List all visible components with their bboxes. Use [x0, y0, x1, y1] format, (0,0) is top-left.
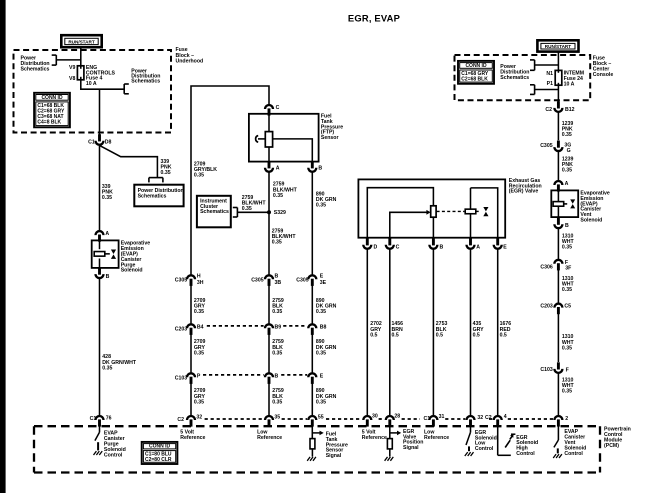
label 31 — [439, 414, 445, 420]
svg-text:0.35: 0.35 — [562, 345, 572, 351]
svg-text:30: 30 — [372, 413, 378, 419]
svg-text:55: 55 — [318, 415, 324, 421]
svg-text:(EGR) Valve: (EGR) Valve — [509, 189, 539, 195]
connector C305 3G — [554, 141, 562, 152]
label C (EGR) — [396, 244, 400, 250]
svg-text:C305: C305 — [175, 277, 188, 283]
title EGR, EVAP — [348, 12, 400, 23]
connector C2 pin 32 (EGR low) — [467, 416, 475, 427]
svg-text:35: 35 — [274, 415, 280, 421]
label 5 Volt Reference (30) — [362, 429, 387, 441]
svg-text:C2: C2 — [545, 107, 552, 113]
label H — [197, 274, 201, 280]
PCM input FTP signal arrow — [312, 426, 323, 438]
svg-text:B4: B4 — [197, 324, 204, 330]
wire junction to right bracket — [100, 88, 125, 90]
svg-text:C305: C305 — [540, 143, 553, 149]
label B (C103) — [275, 373, 279, 379]
svg-text:Reference: Reference — [362, 435, 387, 441]
svg-text:B: B — [565, 223, 569, 229]
bracket to Power Distribution Schematics (right) — [124, 84, 129, 94]
svg-text:0.35: 0.35 — [562, 287, 572, 293]
wire col3 C305-C203 — [311, 285, 313, 324]
resistor (EGR position) — [387, 439, 392, 449]
svg-text:A: A — [565, 181, 569, 187]
fuse F4 ENG CONTROLS — [77, 66, 84, 80]
svg-text:0.35: 0.35 — [272, 399, 282, 405]
connector A (FTP) — [265, 161, 273, 172]
label 2709 GRY 0.35 (band2) — [194, 339, 206, 356]
svg-text:C305: C305 — [296, 277, 309, 283]
PCM driver EGR high — [498, 426, 516, 455]
ground (purge control) — [94, 451, 103, 455]
connector pin 55 — [308, 416, 316, 427]
svg-text:Control: Control — [104, 452, 123, 458]
EGR mech dashed link — [437, 210, 465, 212]
label D — [374, 244, 378, 250]
connector B (purge) — [96, 268, 104, 279]
label 30 — [372, 413, 378, 419]
label 1310 WHT 0.35 (3) — [562, 334, 575, 351]
label S329 — [274, 210, 286, 216]
wire resistor to ground (28) — [389, 449, 391, 457]
page left border bar — [0, 0, 6, 493]
wire col1 C203-C103 — [190, 334, 192, 373]
label N1 — [546, 71, 553, 77]
wire col3 C103-PCM — [311, 383, 313, 416]
svg-text:B8: B8 — [320, 324, 327, 330]
fuel tank pressure sensor box — [249, 114, 319, 162]
svg-text:C4=8 BLK: C4=8 BLK — [37, 119, 61, 125]
label 2702 GRY 0.5 — [370, 321, 382, 338]
label 3F — [565, 266, 571, 272]
connector C203 C5 — [554, 304, 562, 315]
label 2759 BLK 0.35 (band1) — [272, 298, 284, 315]
label B9 — [275, 324, 282, 330]
label 2709 GRY/BLK 0.35 — [194, 161, 217, 178]
connector C103 pin P — [187, 373, 195, 384]
wire resistor to ground (55) — [311, 449, 313, 457]
label Power Distribution Schematics (fuse right) — [131, 68, 160, 84]
connector C1 pin 31 — [429, 416, 437, 427]
connector C203 pin B4 — [187, 324, 195, 335]
svg-text:CONN ID: CONN ID — [149, 444, 171, 450]
label C305 (right) — [540, 143, 553, 149]
wire C1 to purge solenoid — [99, 145, 101, 231]
label 890 DK GRN 0.35 (band1) — [316, 298, 337, 315]
label C103 — [175, 375, 188, 381]
label 3E — [320, 280, 327, 286]
connector E (EGR) — [494, 238, 502, 249]
PCM driver EGR low — [466, 426, 471, 451]
label 2753 BLK 0.5 — [436, 321, 448, 338]
label 890 DK GRN 0.35 (top) — [316, 192, 337, 209]
label Powertrain Control Module (PCM) — [604, 427, 631, 449]
wire RUN/START to fuse — [80, 47, 82, 66]
svg-text:Signal: Signal — [403, 445, 419, 451]
connector B (EGR) — [429, 238, 437, 249]
connector pin 35 — [265, 416, 273, 427]
PCM dashed box — [34, 426, 600, 472]
svg-text:A: A — [276, 166, 280, 172]
svg-text:Console: Console — [593, 72, 614, 78]
label A (EGR) — [476, 244, 480, 250]
wire col2 C203-C103 — [268, 334, 270, 373]
connector D (EGR) — [363, 238, 371, 249]
ground (EGR position) — [385, 457, 394, 461]
C103 harness dashed link — [203, 374, 307, 376]
svg-text:0.35: 0.35 — [562, 132, 572, 138]
svg-text:76: 76 — [106, 415, 112, 421]
svg-text:C2=68 BLK: C2=68 BLK — [461, 76, 488, 82]
connector A (EGR) — [467, 238, 475, 249]
label 2759 BLK 0.35 (band3) — [272, 388, 284, 405]
connector B (vent) — [554, 218, 562, 229]
svg-text:28: 28 — [394, 413, 400, 419]
box Instrument Cluster Schematics — [197, 196, 231, 228]
label 2759 BLK/WHT 0.35 (branch) — [242, 195, 267, 212]
label D8 — [105, 140, 112, 146]
svg-text:0.35: 0.35 — [272, 350, 282, 356]
label 28 — [394, 413, 400, 419]
label Power Distribution Schematics (left) — [21, 55, 50, 72]
connector A (purge) — [96, 231, 104, 242]
wire branch diagonal to 339 PNK — [100, 145, 158, 177]
svg-text:B: B — [275, 273, 279, 279]
label Low Reference (35) — [257, 429, 282, 441]
label E (C103) — [320, 373, 324, 379]
svg-text:2: 2 — [565, 416, 568, 422]
vent solenoid coil — [553, 190, 567, 217]
label B12 — [565, 107, 575, 113]
power symbol RUN/START (right) — [537, 40, 578, 51]
EGR inner wire D to potentiometer — [367, 188, 433, 238]
EGR potentiometer — [431, 206, 436, 217]
purge solenoid valve — [111, 250, 116, 259]
label C (FTP) — [276, 105, 280, 111]
EGR solenoid coil — [465, 188, 476, 238]
FTP pressure element — [256, 136, 266, 143]
label 1310 WHT 0.35 (2) — [562, 276, 575, 293]
svg-text:0.35: 0.35 — [194, 173, 204, 179]
svg-text:0.35: 0.35 — [272, 239, 282, 245]
label 2759 BLK/WHT 0.35 (above S329) — [273, 182, 298, 199]
svg-text:C103: C103 — [540, 367, 553, 373]
wire EGR D to PCM 30 — [366, 249, 368, 416]
purge solenoid coil — [94, 240, 110, 268]
label C103 (right) — [540, 367, 553, 373]
svg-text:E: E — [320, 373, 324, 379]
label 4 — [504, 414, 507, 420]
label C2 (B12) — [545, 107, 552, 113]
label 339 PNK 0.35 (branch) — [161, 159, 172, 176]
svg-text:Sensor: Sensor — [321, 135, 339, 141]
svg-text:S329: S329 — [274, 210, 286, 216]
wire C203 to C103 (right) — [557, 314, 559, 362]
label INTEMM Fuse 24 10 A — [564, 71, 584, 88]
svg-text:0.35: 0.35 — [562, 388, 572, 394]
label 1310 WHT 0.35 (1) — [562, 233, 575, 250]
svg-text:3E: 3E — [320, 280, 327, 286]
wire purge to PCM 76 — [99, 279, 101, 417]
wire col1 C103-PCM — [190, 383, 192, 416]
svg-text:0.5: 0.5 — [473, 332, 480, 338]
label C203 — [175, 327, 188, 333]
svg-text:F: F — [566, 368, 569, 374]
label 435 GRY 0.5 — [473, 321, 485, 338]
wire fuse to junction — [81, 80, 100, 89]
bracket PDS console bottom — [530, 85, 558, 95]
fuse block center console dashed box — [455, 55, 591, 100]
svg-text:B: B — [106, 274, 110, 280]
resistor (FTP signal) — [310, 439, 315, 449]
label C2 (32) — [177, 417, 184, 423]
splice S329 — [267, 210, 271, 214]
label EGR Solenoid High Control — [516, 435, 538, 457]
svg-text:Control: Control — [475, 446, 494, 452]
svg-text:RUN/START: RUN/START — [545, 44, 571, 49]
conn id table (underhood) — [34, 93, 70, 128]
label V8 — [69, 76, 75, 82]
label B (C305) — [275, 273, 279, 279]
svg-text:CONN ID: CONN ID — [465, 63, 487, 69]
label 3G — [564, 142, 571, 148]
label 32 — [196, 415, 202, 421]
svg-text:CONN ID: CONN ID — [41, 95, 63, 101]
svg-text:C: C — [396, 244, 400, 250]
svg-text:3B: 3B — [275, 280, 282, 286]
wire FTP B to C305 — [311, 172, 313, 275]
label 890 DK GRN 0.35 (band3) — [316, 388, 337, 405]
svg-text:3F: 3F — [565, 266, 571, 272]
connector C2/B12 — [554, 101, 562, 112]
EGR wiper from C — [390, 210, 431, 238]
ground (vent control) — [553, 454, 562, 458]
label B (EGR) — [440, 244, 444, 250]
label 1456 BRN 0.5 — [392, 321, 404, 338]
label V9 — [69, 65, 75, 71]
label 76 — [106, 415, 112, 421]
label 5 Volt Reference (32) — [180, 429, 205, 441]
svg-text:RUN/START: RUN/START — [68, 40, 94, 45]
label 2759 BLK 0.35 (band2) — [272, 339, 284, 356]
connector pin 4 — [494, 416, 502, 427]
svg-text:D8: D8 — [105, 140, 112, 146]
svg-text:Signal: Signal — [326, 453, 342, 459]
label E (EGR) — [503, 244, 507, 250]
label 55 — [318, 415, 324, 421]
svg-text:0.35: 0.35 — [194, 350, 204, 356]
wire col3 C203-C103 — [311, 334, 313, 373]
FTP potentiometer — [265, 114, 272, 162]
svg-text:3H: 3H — [197, 280, 204, 286]
EGR valve bowtie — [483, 207, 488, 216]
svg-text:(PCM): (PCM) — [604, 443, 619, 449]
wire S329 to C305 — [268, 212, 270, 275]
svg-text:P: P — [197, 373, 201, 379]
wire C2 to C305 (right) — [557, 112, 559, 140]
label C305 (col2) — [251, 277, 264, 283]
connector C203 pin B9 — [265, 324, 273, 335]
PCM input EGR position arrow — [390, 426, 401, 438]
svg-text:0.35: 0.35 — [102, 195, 112, 201]
svg-text:D: D — [374, 244, 378, 250]
label ENG CONTROLS Fuse 4 10 A — [86, 65, 116, 87]
svg-text:C2: C2 — [177, 417, 184, 423]
svg-text:Schematics: Schematics — [200, 209, 229, 215]
label 428 DK GRN/WHT 0.35 — [102, 354, 137, 371]
svg-text:C203: C203 — [540, 303, 553, 309]
EGR wire coil top to E — [471, 188, 498, 238]
label Evaporative Emission (EVAP) Canister Vent Solenoid — [580, 191, 610, 224]
EGR wire pot to B — [432, 217, 434, 238]
label 1239 PNK 0.35 (1) — [562, 121, 574, 138]
conn id table (PCM) — [142, 442, 178, 464]
label 2759 BLK/WHT 0.35 (below S329) — [272, 228, 297, 245]
svg-text:C103: C103 — [175, 375, 188, 381]
label P1 — [547, 81, 553, 87]
connector C103 pin B — [265, 373, 273, 384]
fuse block underhood dashed box — [14, 50, 172, 133]
label 1239 PNK 0.35 (2) — [562, 156, 574, 173]
svg-text:C203: C203 — [175, 327, 188, 333]
svg-text:EGR, EVAP: EGR, EVAP — [348, 12, 400, 23]
svg-text:C1: C1 — [90, 416, 97, 422]
svg-text:C305: C305 — [251, 277, 264, 283]
connector C2 pin 32 — [187, 416, 195, 427]
label F (C306) — [565, 260, 568, 266]
connector C (FTP) — [265, 105, 273, 116]
label B4 — [197, 324, 204, 330]
bracket into Power Distribution Schematics box — [149, 178, 163, 183]
connector C305 pin B — [265, 275, 273, 286]
svg-text:10 A: 10 A — [86, 81, 97, 87]
connector C306 3F — [554, 260, 562, 271]
svg-text:0.35: 0.35 — [562, 245, 572, 251]
svg-text:0.35: 0.35 — [102, 365, 112, 371]
svg-text:Reference: Reference — [180, 435, 205, 441]
wire EGR A to PCM 32C2 — [470, 249, 472, 416]
svg-text:Underhood: Underhood — [176, 58, 204, 64]
svg-text:0.35: 0.35 — [273, 193, 283, 199]
svg-text:Solenoid: Solenoid — [121, 268, 143, 274]
EGR valve box — [358, 179, 505, 237]
svg-text:0.35: 0.35 — [316, 350, 326, 356]
svg-text:0.5: 0.5 — [370, 332, 377, 338]
wire bracket to run/start wire — [56, 59, 81, 61]
svg-text:C2: C2 — [485, 415, 492, 421]
svg-text:0.35: 0.35 — [316, 399, 326, 405]
label C2 (EGR low) — [485, 415, 492, 421]
svg-text:0.35: 0.35 — [194, 309, 204, 315]
label 3H — [197, 280, 204, 286]
connector C (EGR) — [386, 238, 394, 249]
wire EGR B to PCM 31 — [432, 249, 434, 416]
PCM driver EVAP purge — [95, 426, 100, 450]
wire col1 C305-C203 — [190, 285, 192, 324]
label B8 — [320, 324, 327, 330]
wire FTP A to S329 — [268, 172, 270, 212]
label 890 DK GRN 0.35 (band2) — [316, 339, 337, 356]
label A (purge) — [105, 231, 109, 237]
label C1 (76) — [90, 416, 97, 422]
svg-text:V8: V8 — [69, 76, 75, 82]
svg-text:Reference: Reference — [257, 435, 282, 441]
wire fuse 24 to C2 — [557, 85, 559, 102]
svg-text:0.5: 0.5 — [392, 332, 399, 338]
label 35 — [274, 415, 280, 421]
svg-text:31: 31 — [439, 414, 445, 420]
EGR coil-valve dash — [476, 210, 478, 212]
svg-text:C1: C1 — [88, 140, 95, 146]
label B (purge) — [106, 274, 110, 280]
vent solenoid valve — [570, 199, 575, 208]
wire junction down to C1 — [99, 89, 101, 135]
fuse F24 INTEMM — [555, 70, 562, 85]
label G — [567, 148, 571, 154]
connector pin 28 — [386, 416, 394, 427]
label C203 (right) — [540, 303, 553, 309]
label 1676 RED 0.5 — [500, 321, 512, 338]
label 1310 WHT 0.35 (4) — [562, 377, 575, 394]
svg-text:0.5: 0.5 — [500, 332, 507, 338]
label C305 (col1) — [175, 277, 188, 283]
label 2709 GRY 0.35 (band1) — [194, 298, 206, 315]
label A (FTP) — [276, 166, 280, 172]
connector A (vent) — [554, 181, 562, 192]
label A (vent) — [565, 181, 569, 187]
label Exhaust Gas Recirculation (EGR) Valve — [509, 178, 542, 195]
label Power Distribution Schematics (console) — [500, 64, 529, 81]
label 2709 GRY 0.35 (band3) — [194, 388, 206, 405]
label P — [197, 373, 201, 379]
label B (FTP) — [318, 166, 322, 172]
label C306 — [540, 265, 553, 271]
label Evaporative Emission (EVAP) Canister Purge Solenoid — [121, 241, 151, 274]
wire C305 to vent solenoid — [557, 152, 559, 182]
connector C103 F — [554, 362, 562, 373]
svg-text:0.35: 0.35 — [316, 203, 326, 209]
connector C2 pin 2 — [554, 416, 562, 427]
svg-text:0.35: 0.35 — [161, 170, 171, 176]
wire instrument cluster branch — [237, 211, 269, 213]
svg-text:0.5: 0.5 — [436, 332, 443, 338]
svg-text:H: H — [197, 274, 201, 280]
connector C305 pin E — [308, 275, 316, 286]
ground (FTP signal) — [307, 457, 316, 461]
svg-text:B: B — [318, 166, 322, 172]
svg-text:A: A — [105, 231, 109, 237]
svg-text:A: A — [476, 244, 480, 250]
svg-text:Control: Control — [516, 451, 535, 457]
C203 harness dashed link — [207, 325, 307, 327]
connector C103 pin E — [308, 373, 316, 384]
connector pin 30 — [363, 416, 371, 427]
wire EGR C to PCM 28 — [389, 249, 391, 416]
power symbol RUN/START (left) — [61, 35, 101, 47]
PCM driver EVAP vent — [554, 426, 559, 453]
PCM pin harness dashed line — [205, 418, 554, 420]
label Fuel Tank Pressure Sensor Signal — [326, 432, 348, 459]
svg-text:Control: Control — [564, 451, 583, 457]
svg-text:C306: C306 — [540, 265, 553, 271]
svg-text:0.35: 0.35 — [242, 206, 252, 212]
svg-text:Schematics: Schematics — [131, 79, 160, 85]
connector C1 pin 76 — [96, 416, 104, 427]
svg-text:C2=80 CLR: C2=80 CLR — [145, 457, 172, 463]
label EVAP Canister Purge Solenoid Control — [104, 431, 126, 459]
wire C306 to C203 (right) — [557, 270, 559, 304]
